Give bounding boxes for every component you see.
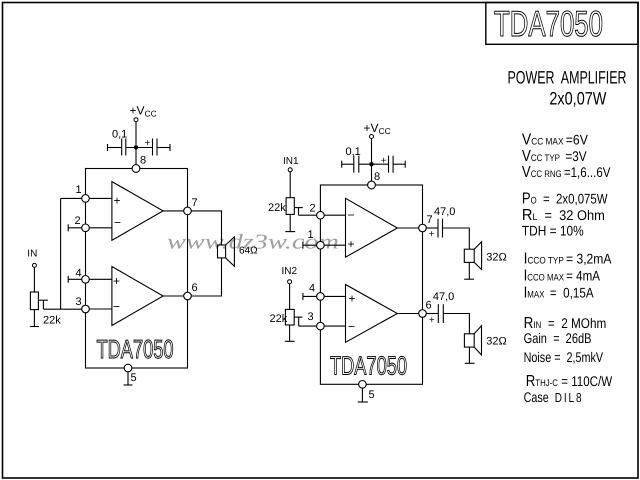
- wire U2A output: [397, 227, 422, 229]
- node pin6: [184, 292, 192, 300]
- wire C6 to speaker LS3: [443, 314, 469, 334]
- speaker LS3: [464, 334, 474, 347]
- svg-text:TDH = 10%: TDH = 10%: [522, 223, 584, 239]
- node pin3 U2: [317, 322, 325, 330]
- op-amp U1B: [112, 267, 163, 326]
- svg-text:−: −: [348, 319, 355, 333]
- node pin2: [82, 224, 90, 232]
- svg-text:4: 4: [76, 268, 82, 280]
- wire C5 to speaker LS2: [443, 228, 470, 249]
- svg-text:Gain = 26dB: Gain = 26dB: [524, 330, 592, 346]
- wire pin7 to speaker: [188, 211, 222, 245]
- wire pin1 input: [86, 197, 112, 199]
- svg-text:7: 7: [192, 197, 198, 209]
- terminal IN1: [288, 168, 292, 172]
- wire pin6 to C6: [423, 313, 439, 315]
- node pin6 U2: [419, 310, 427, 318]
- wire pin2 input: [320, 214, 345, 216]
- R2 bottom lead: [289, 214, 291, 231]
- title box: [486, 3, 638, 45]
- resistor R3 22k: [285, 309, 294, 325]
- svg-text:Case DIL8: Case DIL8: [524, 389, 584, 405]
- svg-text:32Ω: 32Ω: [486, 336, 506, 348]
- svg-text:+: +: [429, 229, 435, 240]
- wire Vcc to pin8: [135, 122, 137, 169]
- ground pin5 U2: [358, 401, 368, 403]
- R1 wiper: [38, 299, 48, 301]
- svg-text:64Ω: 64Ω: [239, 246, 258, 257]
- pin4 stub: [68, 278, 85, 280]
- terminal +Vcc: [134, 118, 138, 122]
- svg-text:2: 2: [75, 215, 81, 227]
- svg-text:TDA7050: TDA7050: [97, 334, 174, 364]
- svg-text:IN: IN: [27, 249, 37, 260]
- capacitor C6 47,0: [437, 304, 439, 323]
- capacitor C2 plates: [152, 139, 154, 156]
- IC U2 box: [320, 185, 422, 384]
- svg-text:2: 2: [310, 202, 316, 214]
- wire pin5 ground: [127, 372, 129, 385]
- IC U1 box: [86, 169, 188, 369]
- node pin8: [132, 165, 140, 173]
- svg-text:+: +: [114, 193, 121, 207]
- svg-text:6: 6: [192, 282, 198, 294]
- wire U1A output: [163, 210, 187, 212]
- R2 wiper: [294, 207, 303, 209]
- svg-text:−: −: [348, 208, 355, 222]
- node pin5 U2: [359, 381, 367, 389]
- resistor R1 22k: [30, 292, 38, 310]
- svg-text:47,0: 47,0: [434, 206, 455, 218]
- wire pot to pin3: [43, 308, 85, 310]
- svg-text:TDA7050: TDA7050: [330, 351, 407, 381]
- wire U1B output: [163, 295, 187, 297]
- capacitor C1 plates 0,1: [121, 139, 123, 156]
- wire LS3 ground: [468, 347, 470, 363]
- node pin2 U2: [317, 211, 325, 219]
- pin1 stub: [303, 244, 321, 246]
- terminal +Vcc U2: [370, 135, 374, 139]
- svg-text:POWER AMPLIFIER: POWER AMPLIFIER: [508, 68, 627, 88]
- svg-text:8: 8: [374, 171, 380, 183]
- node pin1: [82, 195, 90, 203]
- svg-text:6: 6: [426, 300, 432, 312]
- wire IN to pot: [33, 267, 35, 292]
- ground R2: [285, 231, 295, 233]
- svg-text:Noise = 2,5mkV: Noise = 2,5mkV: [524, 349, 604, 365]
- wire Vcc to pin8: [371, 138, 373, 185]
- node pin8 U2: [368, 181, 376, 189]
- svg-text:+: +: [381, 156, 387, 167]
- ground LS2: [464, 278, 474, 280]
- R1 bottom lead: [33, 310, 35, 327]
- svg-text:3: 3: [308, 311, 314, 323]
- svg-text:3: 3: [76, 296, 82, 308]
- node pin4 U2: [317, 293, 325, 301]
- svg-text:−: −: [114, 216, 121, 230]
- capacitor rail C3 C4: [342, 163, 354, 165]
- junction dot C3/C4: [369, 162, 373, 166]
- wire pin3 input: [86, 308, 112, 310]
- terminal IN: [32, 263, 36, 267]
- wire pin7 to C5: [423, 227, 439, 229]
- svg-text:+: +: [348, 237, 355, 251]
- R3 bottom lead: [289, 325, 291, 341]
- op-amp U2B: [346, 285, 398, 343]
- svg-text:+: +: [429, 315, 435, 326]
- op-amp U1A: [112, 182, 163, 241]
- svg-text:1: 1: [76, 184, 82, 196]
- capacitor rail C1 C2: [108, 147, 122, 149]
- svg-text:−: −: [113, 300, 120, 314]
- svg-text:1: 1: [308, 229, 314, 241]
- wire pin3 input: [320, 325, 345, 327]
- wire IN1 to pot: [289, 172, 291, 198]
- op-amp U2A: [346, 198, 398, 257]
- ground R3: [285, 340, 295, 342]
- wire speaker to pin6: [188, 258, 222, 296]
- node pin3: [82, 305, 90, 313]
- svg-text:IN2: IN2: [282, 266, 298, 277]
- wire left bus vertical: [60, 198, 62, 309]
- svg-text:22k: 22k: [270, 313, 288, 325]
- svg-text:4: 4: [309, 283, 315, 295]
- speaker LS1: [218, 245, 226, 258]
- wire pin1 input: [320, 244, 345, 246]
- junction dot C1/C2: [134, 145, 138, 149]
- node pin7 U2: [419, 224, 427, 232]
- svg-text:32Ω: 32Ω: [486, 252, 506, 264]
- wire pin5 ground: [361, 388, 363, 402]
- capacitor C5 47,0: [437, 219, 439, 238]
- wire pin1 to left bus: [61, 197, 86, 199]
- wire pin4 input: [86, 278, 112, 280]
- wire pin2 input: [86, 227, 112, 229]
- node pin5: [124, 364, 132, 372]
- speaker LS2: [464, 249, 474, 262]
- svg-text:+: +: [145, 138, 151, 149]
- ground LS3: [465, 362, 475, 364]
- svg-text:47,0: 47,0: [433, 291, 454, 303]
- pin4 stub: [303, 295, 321, 297]
- svg-text:2x0,07W: 2x0,07W: [549, 89, 606, 109]
- svg-text:+: +: [349, 291, 356, 305]
- ground pin5: [124, 384, 133, 386]
- R3 wiper: [294, 316, 302, 318]
- pin2 stub: [68, 227, 85, 229]
- svg-text:0,1: 0,1: [346, 146, 361, 158]
- svg-text:+: +: [113, 274, 120, 288]
- node pin1 U2: [317, 241, 325, 249]
- svg-text:0,1: 0,1: [112, 128, 127, 140]
- node pin7: [184, 207, 192, 215]
- svg-text:IN1: IN1: [283, 156, 299, 167]
- ground R1: [30, 326, 39, 328]
- svg-text:22k: 22k: [43, 314, 61, 326]
- wire IN2 to pot: [289, 284, 291, 310]
- capacitor C3 plates 0,1: [353, 156, 355, 173]
- resistor R2 22k: [286, 198, 294, 215]
- svg-text:TDA7050: TDA7050: [494, 3, 603, 44]
- node pin4: [82, 276, 90, 284]
- svg-text:7: 7: [427, 214, 433, 226]
- wire U2B output: [397, 313, 422, 315]
- svg-text:8: 8: [140, 155, 146, 167]
- svg-text:5: 5: [369, 389, 375, 401]
- wire LS2 ground: [468, 262, 470, 279]
- wire pin4 input: [320, 295, 345, 297]
- svg-text:5: 5: [131, 372, 137, 384]
- svg-text:22k: 22k: [268, 202, 286, 214]
- terminal IN2: [288, 280, 292, 284]
- capacitor C4 plates: [388, 156, 390, 173]
